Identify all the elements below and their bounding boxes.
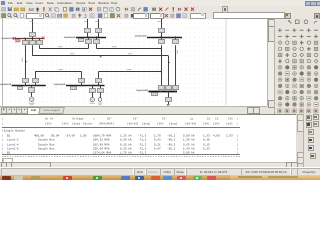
sheet right border	[225, 19, 227, 106]
load breaker under busbar 6	[168, 91, 170, 97]
junction dots busbar 5	[81, 85, 83, 87]
label above infeed	[30, 20, 33, 23]
wire up into busbar2 left breaker	[88, 44, 90, 49]
busbar Single-Busbar(4-B)	[12, 85, 46, 87]
labels on wire L3	[70, 52, 75, 55]
infeed wire 1 busbar 2	[87, 19, 89, 28]
stubs busbar 3 to breakers	[161, 38, 163, 41]
label on wire L2	[112, 45, 117, 48]
wire L4 riser right into busbar5	[81, 72, 83, 79]
busbar Single-Busbar(6-B)	[149, 91, 178, 93]
vertical label near trunk x175.5	[176, 50, 179, 54]
stubs busbar 1 to breakers	[25, 39, 27, 42]
feeder wire from top into busbar 1	[32, 19, 34, 32]
motor M5a label	[90, 102, 95, 105]
wire L2 horizontal to node at busbar3 feeder	[97, 48, 162, 50]
long feeder busbar1 left down to busbar4	[25, 45, 27, 79]
busbar Single-Busbar(3-B)	[147, 37, 182, 39]
stubs busbar 2 to breakers	[88, 38, 90, 41]
open-end flag on trunk x168	[168, 62, 170, 64]
trunk busbar3 to busbar6 (x161)	[161, 45, 163, 85]
infeed breaker 1 busbar 2	[85, 29, 91, 33]
motor M5a	[90, 98, 94, 102]
small switch under busbar 2 left end	[79, 39, 84, 42]
wire L5 horizontal to trunk	[99, 71, 162, 73]
fault marker right (red)	[42, 37, 45, 40]
breaker on busbar-1 infeed	[30, 33, 36, 37]
label on wire L5	[127, 68, 132, 71]
flag on long feeder	[25, 61, 27, 63]
svg-text:Single-Busbar(5-B): Single-Busbar(5-B)	[54, 83, 66, 86]
svg-text:Single-Busbar(2-B): Single-Busbar(2-B)	[64, 36, 76, 39]
wire L3 corner down to busbar6	[168, 56, 170, 86]
breaker boxes under busbar 1	[23, 41, 29, 45]
label above busbar 3 infeed	[158, 20, 161, 23]
wire L4: busbar4 to busbar5 riser left	[35, 72, 37, 79]
wire L4 horizontal	[35, 71, 81, 73]
motor M5b	[98, 98, 102, 102]
junction on vertical trunk	[160, 48, 162, 50]
label on wire L1	[58, 45, 63, 48]
breaker boxes under busbar 3	[159, 40, 165, 44]
busbar Single-Busbar(5-B)	[66, 85, 105, 87]
sheet left border	[2, 19, 4, 106]
trunk busbar3 to busbar6 (x175.5)	[175, 45, 177, 85]
stubs busbar 5 to load breakers	[92, 86, 94, 89]
load breaker under busbar 4	[29, 88, 35, 93]
junction dots on busbar 1	[24, 38, 26, 40]
busbar Single-Busbar(1-B)	[14, 38, 44, 40]
motor M4 (double circle)	[29, 97, 34, 102]
wire to motor M4	[31, 92, 33, 97]
infeed breaker busbar 3	[159, 29, 165, 33]
load breakers under busbar 5	[90, 89, 96, 93]
wire L5: busbar5 right riser	[98, 72, 100, 79]
wire L2: busbar2 right feeder down	[96, 44, 98, 49]
junction dots busbar 2	[87, 36, 89, 38]
wire L1 horizontal to busbar2	[39, 48, 88, 50]
junction wire L5 / trunk	[160, 71, 162, 73]
load arrow under busbar 6	[168, 102, 170, 105]
fault marker left (red)	[13, 37, 16, 40]
small switch under busbar 6 left	[152, 93, 158, 96]
motor M4 label	[29, 102, 35, 105]
labels above busbar 2 infeeds	[84, 20, 87, 23]
stubs to busbar 5	[81, 83, 83, 86]
wire to motor M5b	[100, 92, 102, 97]
direction flag on wire L3	[100, 56, 102, 58]
motor M5b label	[98, 102, 102, 105]
small switch under busbar 4 left	[18, 87, 23, 90]
breaker boxes under busbar 2	[86, 40, 92, 44]
wire L1: busbar1 right feeder down	[39, 45, 41, 48]
stubs to busbar 4	[25, 83, 27, 86]
svg-text:Single-Busbar(4-B): Single-Busbar(4-B)	[0, 83, 11, 86]
vertical label near long feeder	[21, 58, 24, 63]
label on wire L4	[59, 68, 64, 71]
svg-text:Single-Busbar(6-B): Single-Busbar(6-B)	[136, 89, 148, 92]
small switch box left under busbar 1 (red tinted)	[15, 39, 20, 42]
wire L3 long horizontal	[32, 55, 168, 57]
wire to motor M5a	[92, 92, 94, 97]
infeed wire busbar 3	[161, 19, 163, 28]
junction dots busbar 6	[160, 91, 162, 93]
stub busbar 4 to load breaker	[31, 86, 33, 88]
infeed breaker 2 busbar 2	[96, 29, 102, 33]
wire L3: busbar1 middle feeder down	[32, 45, 34, 55]
svg-text:Single-Busbar(1-B): Single-Busbar(1-B)	[2, 37, 14, 40]
infeed wire 2 busbar 2	[98, 19, 100, 28]
junction dots busbar 3	[160, 36, 162, 38]
busbar Single-Busbar(2-B)	[76, 37, 106, 39]
junction dots busbar 4	[24, 85, 26, 87]
breaker boxes above busbar 5	[79, 79, 85, 83]
svg-text:Single-Busbar(3-B): Single-Busbar(3-B)	[135, 35, 147, 38]
breaker boxes above busbar 6	[159, 86, 165, 90]
small switch under busbar 5 left	[71, 87, 77, 90]
breaker boxes above busbar 4	[23, 79, 29, 83]
